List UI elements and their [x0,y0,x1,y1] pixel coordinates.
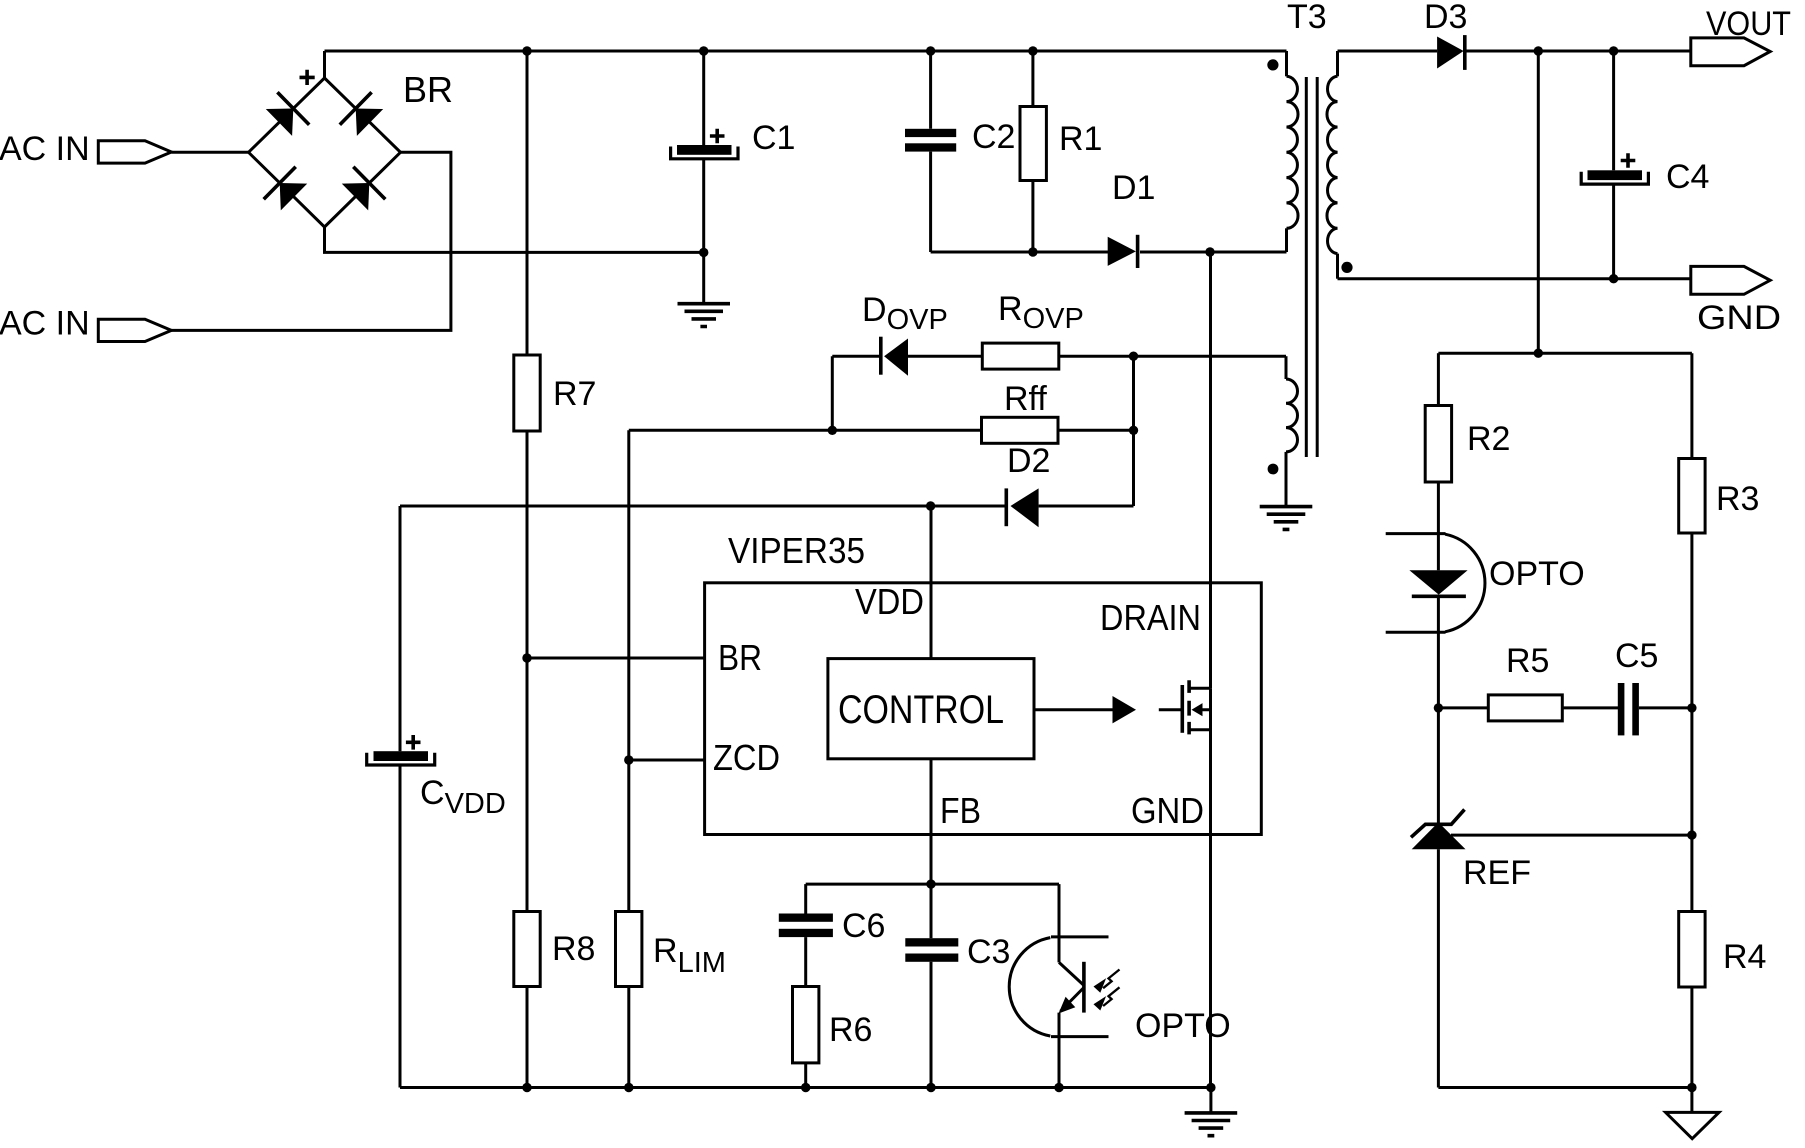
wire bridge top to rectified rail [323,51,326,78]
bridge rectifier BR [249,70,401,227]
wire aux bottom lead [1285,452,1288,507]
wire feedback top rail [1438,352,1692,355]
aux winding [1286,379,1298,452]
wire DOVP branch vertical [831,356,834,430]
wire rectified DC top rail [325,50,1287,53]
junction C5 right [1687,703,1696,712]
wire R5 line [1438,706,1488,709]
wire secondary ground rail [1438,1086,1692,1089]
svg-text:VDD: VDD [855,581,924,622]
capacitor C4 [1581,51,1648,279]
junction GND pin bottom [1206,1083,1215,1092]
wire ZCD pin [629,759,705,762]
wire bridge bottom return [325,227,704,252]
junction C2 top [926,46,935,55]
wire VDD / D2 line [400,505,1134,508]
svg-text:OPTO: OPTO [1135,1007,1231,1045]
wire gate drive arrow [1034,696,1136,723]
wire Rff line [629,429,1134,432]
capacitor C6 [779,884,833,986]
ground (input return) [678,252,731,326]
opto LED OPTO [1386,534,1485,708]
svg-text:C3: C3 [967,933,1010,971]
transistor Q1 MOSFET [1159,680,1211,734]
svg-text:C5: C5 [1615,637,1658,675]
VIPER35 block U1 [705,583,1262,835]
svg-text:FB: FB [940,790,981,831]
capacitor C1 [671,51,738,252]
svg-text:D3: D3 [1424,0,1467,36]
junction RLIM bottom [624,1083,633,1092]
resistor R1 [1020,51,1046,252]
wire AC IN 2 to bridge right [171,152,451,330]
junction BR pin [522,653,531,662]
capacitor C3 [905,884,958,1087]
wire ZCD rail x=628.8 [627,430,630,1087]
svg-text:DRAIN: DRAIN [1100,597,1201,638]
diode DOVP [832,337,982,376]
diode D2 [1006,488,1038,527]
junction drain / primary [1205,247,1214,256]
wire secondary top lead [1336,51,1339,76]
svg-text:R8: R8 [552,930,595,968]
CONTROL block [828,659,1034,759]
wire R5 to C5 [1562,706,1618,709]
wire FB pin [930,759,933,884]
node GND terminal [1691,266,1781,337]
junction R5 node [1434,703,1443,712]
junction C1 bottom / ground [699,248,708,257]
diode D1 [1108,235,1138,268]
resistor RLIM [616,912,642,987]
wire FB horizontal [806,883,1059,886]
capacitor C5 [1618,683,1692,735]
wire AC IN 1 to bridge left [171,151,248,154]
junction ROVP right [1129,352,1138,361]
junction C4 top [1609,46,1618,55]
wire primary bottom lead [1285,228,1288,252]
svg-text:T3: T3 [1287,0,1327,36]
svg-text:Rff: Rff [1004,380,1047,418]
reference REF (TL431) [1411,810,1466,1088]
resistor R4 [1679,835,1705,1087]
svg-text:OPTO: OPTO [1489,555,1585,593]
ground (aux winding) [1260,507,1313,530]
svg-text:VIPER35: VIPER35 [728,530,865,571]
svg-text:R5: R5 [1506,642,1549,680]
resistor R8 [514,912,540,987]
capacitor C2 [905,51,956,252]
junction top rail / R7 [522,46,531,55]
wire source to GND pin [1209,688,1212,1087]
ground (secondary, chassis) [1666,1088,1719,1139]
junction Rff left [828,426,837,435]
svg-text:R4: R4 [1723,938,1766,976]
svg-text:BR: BR [403,69,453,110]
svg-text:R2: R2 [1467,420,1510,458]
secondary phase dot [1341,262,1352,273]
wire R6 bottom [804,1063,807,1088]
resistor R5 [1488,695,1562,721]
secondary winding [1327,76,1338,253]
resistor R6 [793,987,819,1063]
junction FB node [926,879,935,888]
svg-text:REF: REF [1463,854,1531,892]
capacitor CVDD [367,506,435,1088]
ground (primary) [1185,1088,1238,1136]
opto transistor OPTO [1009,884,1119,1087]
core [1306,77,1317,457]
svg-text:D2: D2 [1007,442,1050,480]
node AC IN 2 terminal [0,305,171,343]
wire aux top lead [1285,356,1288,379]
svg-text:AC IN: AC IN [0,305,90,343]
junction R1 top [1028,46,1037,55]
junction ZCD pin [624,755,633,764]
wire drain [1209,252,1212,688]
wire secondary bottom lead [1336,254,1339,279]
resistor R3 [1679,353,1705,835]
svg-text:C1: C1 [752,119,795,157]
wire BR pin [527,657,705,660]
resistor R2 [1425,353,1451,570]
wire VOUT sense drop [1537,51,1540,353]
primary phase dot [1267,59,1278,70]
junction VOUT feedback tap [1534,46,1543,55]
wire REF cathode link [1438,708,1692,835]
svg-text:GND: GND [1131,790,1204,831]
svg-text:R3: R3 [1716,480,1759,518]
junction OPTO emitter [1054,1083,1063,1092]
svg-text:CONTROL: CONTROL [838,688,1004,732]
svg-text:AC IN: AC IN [0,130,90,168]
wire primary top lead [1285,51,1288,76]
wire VDD pin [930,506,933,659]
junction sense rail [1534,349,1543,358]
primary winding [1287,76,1299,228]
light arrow 2 [1103,987,1119,1006]
resistor Rff [982,417,1059,443]
svg-text:C6: C6 [842,907,885,945]
junction VDD line [926,501,935,510]
svg-text:ZCD: ZCD [713,737,780,778]
wire secondary return [1338,277,1691,280]
light arrow 1 [1103,970,1119,989]
wire ROVP to aux winding [1059,355,1286,358]
junction R6 bottom [801,1083,810,1092]
svg-text:D1: D1 [1112,169,1155,207]
junction REF node [1687,830,1696,839]
aux phase dot [1268,464,1279,475]
wire snubber bottom [931,251,1287,254]
resistor ROVP [982,343,1059,369]
svg-text:R7: R7 [553,375,596,413]
svg-text:R6: R6 [829,1011,872,1049]
diode D3 [1338,35,1691,70]
wire bottom rail (primary ground) [400,1086,1211,1089]
svg-text:GND: GND [1697,299,1781,337]
junction R8 bottom [522,1083,531,1092]
junction C1 top [699,46,708,55]
junction C4 bottom [1609,274,1618,283]
svg-text:R1: R1 [1059,120,1102,158]
junction secondary ground [1687,1083,1696,1092]
svg-text:BR: BR [718,637,762,678]
node VOUT terminal [1691,5,1791,66]
transformer T3 [1260,0,1353,529]
junction C3 bottom [926,1083,935,1092]
junction Rff right [1129,426,1138,435]
svg-text:C2: C2 [972,118,1015,156]
svg-text:C4: C4 [1666,158,1709,196]
resistor R7 [514,355,540,431]
wire OVP vertical link [1132,356,1135,506]
wire input bulk rail x=527 [526,51,529,1088]
junction R1 bottom [1028,247,1037,256]
node AC IN 1 terminal [0,130,171,168]
